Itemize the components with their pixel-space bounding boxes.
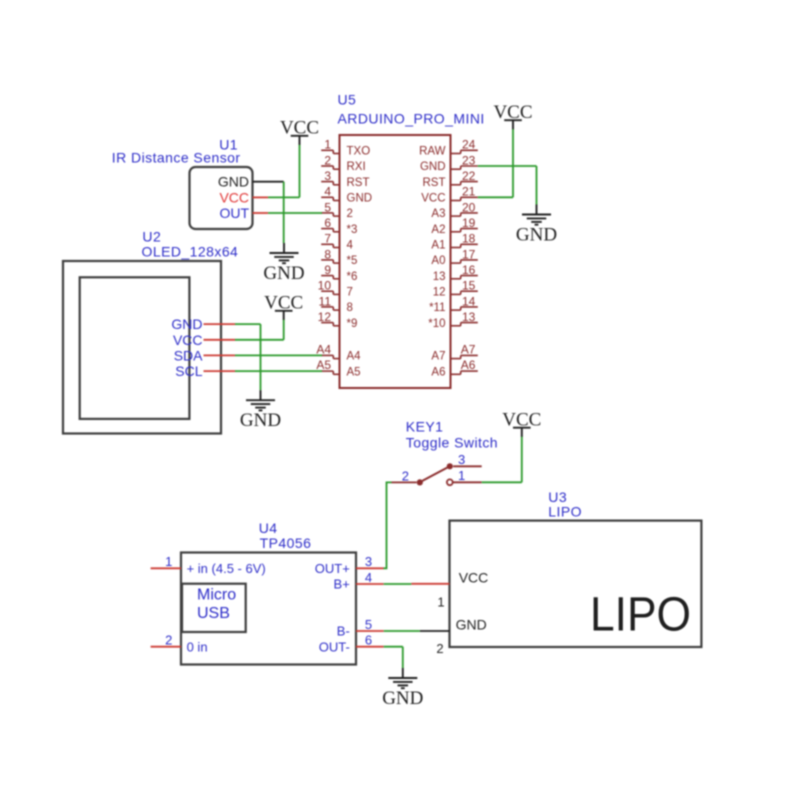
svg-text:B-: B-	[337, 624, 350, 639]
svg-text:2: 2	[436, 641, 443, 656]
svg-text:GND: GND	[382, 688, 423, 709]
U5 pin 16 (13) right	[433, 263, 478, 283]
svg-text:12: 12	[433, 286, 446, 298]
svg-text:*9: *9	[347, 318, 358, 330]
U5 pin 14 (*11) right	[429, 294, 478, 314]
svg-text:OUT-: OUT-	[319, 639, 350, 654]
svg-text:GND: GND	[456, 617, 487, 633]
svg-text:VCC: VCC	[173, 332, 203, 348]
svg-text:KEY1: KEY1	[406, 419, 444, 435]
svg-text:2: 2	[402, 469, 409, 484]
U4 Micro USB text	[197, 587, 236, 623]
power flag VCC (top right)	[493, 102, 532, 129]
svg-text:2: 2	[165, 633, 172, 648]
svg-text:A7: A7	[431, 351, 445, 363]
U5 pin 9 (*6) left	[321, 263, 357, 283]
svg-text:LIPO: LIPO	[590, 589, 691, 642]
wire KEY1 pin 2 down to U4 OUT+	[384, 482, 392, 568]
switch KEY1 reference designator label	[406, 419, 444, 435]
svg-text:SCL: SCL	[175, 363, 202, 379]
svg-text:VCC: VCC	[459, 569, 489, 585]
U2 pin GND name and stub	[171, 316, 235, 332]
svg-text:LIPO: LIPO	[548, 504, 582, 520]
U4 pin 1 (+ in) stub and number	[151, 554, 181, 569]
svg-text:A6: A6	[461, 358, 476, 372]
svg-text:3: 3	[365, 554, 372, 569]
svg-text:A0: A0	[431, 255, 445, 267]
KEY1 pin 1 contact and lead	[447, 479, 482, 485]
svg-text:ARDUINO_PRO_MINI: ARDUINO_PRO_MINI	[338, 111, 485, 127]
svg-text:*11: *11	[429, 302, 445, 314]
svg-text:0 in: 0 in	[187, 639, 208, 654]
svg-text:A5: A5	[347, 366, 361, 378]
wire KEY1 pin 1 to VCC flag	[482, 436, 522, 482]
U1 pin OUT name	[219, 205, 249, 221]
wire U1 OUT to U5 pin 5	[268, 212, 322, 214]
svg-text:Micro: Micro	[197, 587, 236, 604]
U5 pin 6 (*3) left	[321, 216, 357, 236]
U2 value label OLED_128x64	[142, 244, 239, 260]
svg-text:A1: A1	[431, 240, 445, 252]
wire U4 B- to U3 GND	[384, 630, 420, 632]
svg-text:A2: A2	[431, 224, 445, 236]
svg-text:SDA: SDA	[174, 347, 203, 363]
U1 reference designator label	[219, 137, 238, 153]
U5 pin 17 (A0) right	[431, 247, 477, 267]
svg-text:2: 2	[347, 208, 353, 220]
wire U2 GND to ground	[235, 324, 261, 390]
svg-text:U4: U4	[259, 520, 278, 536]
module U4 TP4056 body	[181, 553, 356, 665]
ground symbol GND (below U1)	[263, 243, 304, 284]
U1 VCC pin stub	[253, 196, 269, 198]
svg-text:3: 3	[458, 452, 465, 467]
U5 pin 11 (8) left	[319, 294, 353, 314]
U4 value label TP4056	[260, 535, 312, 551]
svg-text:IR Distance Sensor: IR Distance Sensor	[112, 150, 241, 166]
U5 pin 2 (RXI) left	[321, 153, 365, 173]
U3 pin 1 VCC stub, name and number	[411, 569, 488, 609]
svg-text:U5: U5	[338, 92, 357, 108]
KEY1 pin number 2	[402, 469, 409, 484]
U4 pin 6 (OUT-) stub, number and name	[319, 633, 384, 655]
svg-text:U2: U2	[142, 229, 161, 245]
U5 pin 12 (*9) left	[318, 310, 358, 330]
U5 reference designator label	[338, 92, 357, 108]
U5 pin A4 (A4) left-bottom	[316, 342, 361, 362]
ground symbol GND (right of U5)	[516, 205, 557, 246]
wire U2 VCC up to VCC flag	[235, 319, 284, 340]
sensor U1 IR Distance Sensor body	[190, 167, 253, 229]
svg-text:5: 5	[365, 617, 372, 632]
svg-text:TXO: TXO	[347, 146, 371, 158]
wire U1 GND to ground (black then green down)	[253, 182, 284, 243]
U5 pin A7 (A7) right-bottom	[431, 342, 477, 362]
svg-text:RAW: RAW	[419, 146, 446, 158]
U5 value label ARDUINO_PRO_MINI	[338, 111, 485, 127]
svg-text:GND: GND	[171, 316, 202, 332]
wire U5 pin 23 GND to ground	[478, 166, 537, 205]
U4 pin 5 (B-) stub, number and name	[337, 617, 384, 639]
U3 pin 2 GND stub, name and number	[420, 617, 487, 656]
KEY1 lever arm	[422, 468, 447, 481]
svg-text:A3: A3	[431, 208, 445, 220]
svg-text:GND: GND	[420, 161, 446, 173]
KEY1 pin 3 contact and lead	[447, 463, 482, 469]
U4 pin 2 (0 in) stub and number	[151, 633, 181, 648]
U5 pin A5 (A5) left-bottom	[316, 358, 360, 378]
U5 pin 4 (GND) left	[321, 185, 372, 205]
power flag VCC (above U1)	[280, 118, 319, 145]
U3 big LIPO text	[590, 589, 691, 642]
svg-text:U3: U3	[548, 489, 567, 505]
svg-text:4: 4	[347, 240, 354, 252]
U5 pin 23 (GND) right	[420, 153, 478, 173]
svg-text:*3: *3	[347, 224, 358, 236]
U2 reference designator label	[142, 229, 161, 245]
svg-text:1: 1	[458, 468, 465, 483]
wire U1 VCC up to VCC flag	[268, 144, 299, 197]
U3 value label LIPO	[548, 504, 582, 520]
U4 pin 3 (OUT+) stub, number and name	[315, 554, 384, 576]
power flag VCC (above KEY1)	[502, 410, 541, 437]
U2 pin SDA name and stub	[174, 347, 235, 363]
svg-text:GND: GND	[218, 174, 249, 190]
svg-text:*10: *10	[428, 318, 445, 330]
U1 pin VCC name	[219, 189, 249, 205]
U5 pin 10 (7) left	[318, 279, 353, 299]
svg-text:A5: A5	[316, 358, 331, 372]
svg-text:RST: RST	[423, 177, 446, 189]
svg-text:8: 8	[347, 302, 353, 314]
svg-text:1: 1	[437, 595, 444, 610]
U5 pin 18 (A1) right	[431, 232, 477, 252]
U2 pin VCC name and stub	[173, 332, 235, 348]
U4 pin 1 name "+ in (4.5 - 6V)"	[187, 561, 266, 576]
svg-text:A4: A4	[347, 351, 362, 363]
U5 pin 24 (RAW) right	[419, 138, 478, 158]
U4 Micro USB connector box	[182, 584, 246, 632]
svg-text:7: 7	[347, 286, 353, 298]
U5 pin 15 (12) right	[433, 279, 478, 299]
U4 reference designator label	[259, 520, 278, 536]
svg-text:A7: A7	[461, 342, 476, 356]
svg-text:*5: *5	[347, 255, 358, 267]
wire U4 OUT- to ground	[384, 647, 403, 668]
IC U5 ARDUINO_PRO_MINI body	[340, 135, 451, 388]
U5 pin 13 (*10) right	[428, 310, 478, 330]
U1 OUT pin stub	[253, 212, 269, 214]
U3 reference designator label	[548, 489, 567, 505]
svg-text:+ in (4.5 - 6V): + in (4.5 - 6V)	[187, 561, 266, 576]
svg-text:GND: GND	[240, 410, 281, 431]
U5 pin 8 (*5) left	[321, 247, 357, 267]
svg-text:*6: *6	[347, 271, 358, 283]
svg-text:GND: GND	[516, 225, 557, 246]
KEY1 pin number 1	[458, 468, 465, 483]
svg-text:GND: GND	[263, 263, 304, 284]
U1 value label IR Distance Sensor	[112, 150, 241, 166]
svg-text:TP4056: TP4056	[260, 535, 312, 551]
svg-text:VCC: VCC	[421, 193, 445, 205]
U4 pin 4 (B+) stub, number and name	[334, 570, 384, 592]
svg-text:RXI: RXI	[347, 161, 366, 173]
wire U5 pin 21 VCC up to VCC flag	[478, 129, 513, 198]
svg-text:1: 1	[165, 554, 172, 569]
wire net A4: U2 SDA to U5 A4	[235, 354, 322, 356]
svg-text:6: 6	[365, 633, 372, 648]
U1 pin GND name	[218, 174, 249, 190]
U2 display screen inner rectangle	[80, 277, 190, 419]
U5 pin 3 (RST) left	[321, 169, 369, 189]
svg-text:GND: GND	[347, 193, 373, 205]
svg-text:A6: A6	[431, 366, 445, 378]
U5 pin 21 (VCC) right	[421, 185, 478, 205]
U4 pin 2 name "0 in"	[187, 639, 208, 654]
U5 pin 20 (A3) right	[431, 200, 477, 220]
KEY1 value label Toggle Switch	[406, 435, 498, 451]
wire U4 B+ to U3 VCC	[384, 583, 412, 585]
svg-text:A4: A4	[316, 342, 331, 356]
svg-text:OLED_128x64: OLED_128x64	[142, 244, 239, 260]
battery U3 LIPO body	[450, 521, 702, 647]
U5 pin 19 (A2) right	[431, 216, 477, 236]
svg-text:Toggle Switch: Toggle Switch	[406, 435, 498, 451]
ground symbol GND (below U4)	[382, 668, 423, 709]
U5 pin 22 (RST) right	[423, 169, 478, 189]
U2 pin SCL name and stub	[175, 363, 235, 379]
svg-text:USB: USB	[197, 605, 230, 622]
U5 pin 1 (TXO) left	[321, 138, 370, 158]
KEY1 pin 2 lead and contact	[392, 479, 423, 485]
KEY1 pin number 3	[458, 452, 465, 467]
U5 pin 5 (2) left	[321, 200, 353, 220]
svg-text:OUT+: OUT+	[315, 561, 350, 576]
svg-text:B+: B+	[334, 577, 350, 592]
display U2 OLED_128x64 outer body	[63, 261, 221, 434]
svg-text:RST: RST	[347, 177, 370, 189]
svg-text:13: 13	[433, 271, 446, 283]
svg-text:4: 4	[365, 570, 372, 585]
svg-text:OUT: OUT	[219, 205, 249, 221]
power flag VCC (above U2)	[264, 293, 303, 320]
U5 pin A6 (A6) right-bottom	[431, 358, 477, 378]
ground symbol GND (below U2)	[240, 390, 281, 431]
U5 pin 7 (4) left	[321, 232, 353, 252]
wire net A5: U2 SCL to U5 A5	[235, 370, 322, 372]
svg-text:VCC: VCC	[219, 189, 249, 205]
